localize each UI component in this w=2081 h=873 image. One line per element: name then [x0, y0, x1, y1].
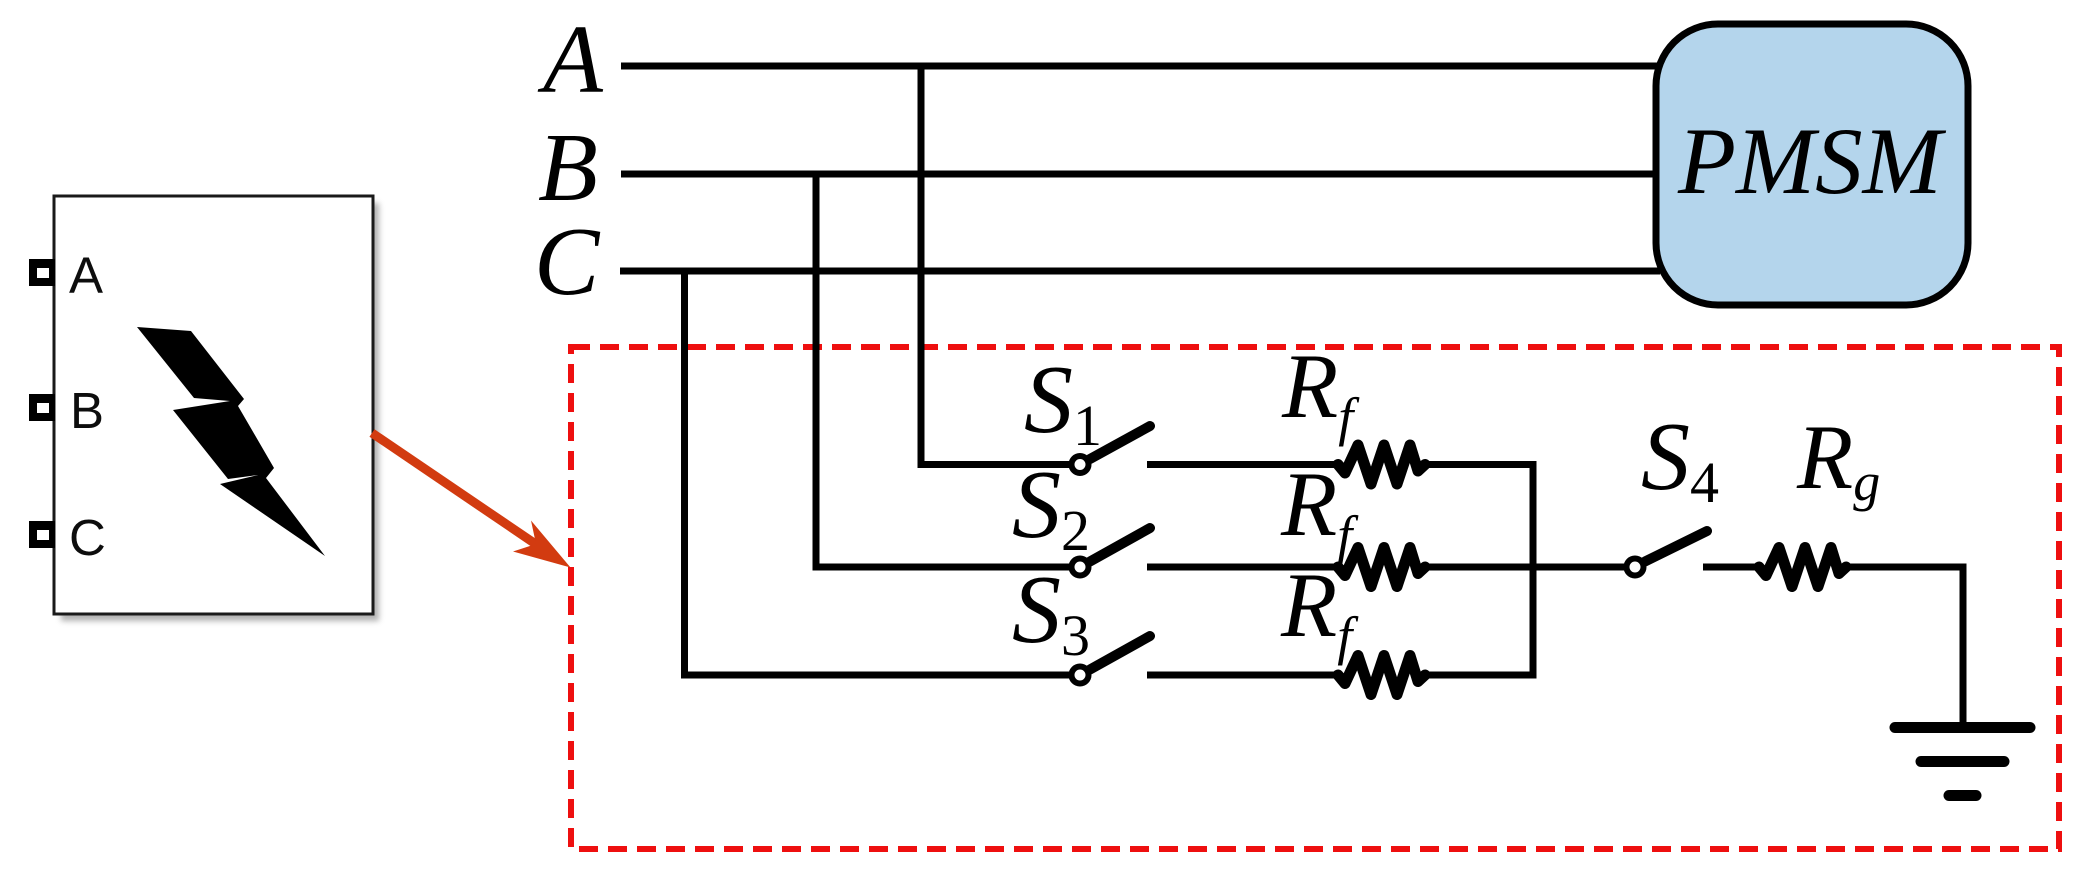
wire S1 to Rf1: [1147, 461, 1338, 468]
svg-text:B: B: [538, 114, 598, 222]
resistor Rf3: [1338, 656, 1425, 695]
wire phase A: [621, 63, 1660, 70]
svg-text:C: C: [534, 208, 601, 316]
svg-text:A: A: [537, 6, 604, 114]
wire S3 to Rf3: [1147, 672, 1338, 679]
wire Rg to ground: [1846, 567, 1963, 722]
bus (parallel join): [1530, 461, 1537, 679]
svg-text:Rg: Rg: [1796, 406, 1880, 512]
fault zone boundary (red dashed): [571, 347, 2059, 849]
port B: [29, 394, 55, 421]
wire phase B: [621, 171, 1660, 178]
svg-text:C: C: [69, 509, 106, 566]
svg-text:Rf: Rf: [1281, 335, 1360, 447]
switch S3: [1072, 636, 1151, 684]
wire S4 to Rg: [1703, 564, 1759, 571]
annotation arrow: [372, 433, 571, 568]
wire C dropper to S3: [685, 271, 1071, 675]
wire Rf3 to bus: [1425, 672, 1536, 679]
svg-text:A: A: [69, 247, 103, 304]
ground: [1895, 728, 2030, 796]
wire B dropper to S2: [816, 174, 1070, 567]
resistor Rf1: [1338, 445, 1425, 484]
wire Rf1 to bus: [1425, 461, 1536, 468]
svg-text:S4: S4: [1641, 403, 1719, 515]
switch S4: [1627, 531, 1708, 576]
switch S2: [1072, 528, 1151, 576]
svg-text:PMSM: PMSM: [1677, 108, 1947, 214]
switch S1: [1072, 426, 1151, 473]
port C: [29, 521, 55, 548]
svg-text:B: B: [70, 382, 104, 439]
wire Rf2 to S4: [1425, 564, 1624, 571]
port A: [29, 259, 55, 286]
resistor Rg: [1759, 548, 1846, 587]
wire S2 to Rf2: [1147, 564, 1338, 571]
wire A dropper to S1: [921, 66, 1070, 465]
PMSM block: [1656, 24, 1968, 305]
fault block body: [54, 196, 379, 621]
svg-text:S1: S1: [1024, 346, 1102, 458]
resistor Rf2: [1338, 548, 1425, 587]
wire phase C: [620, 268, 1660, 275]
lightning bolt: [137, 327, 325, 556]
